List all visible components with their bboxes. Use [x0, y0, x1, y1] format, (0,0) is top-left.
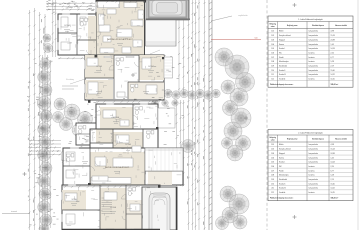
svg-text:185,41 m²: 185,41 m²: [331, 83, 339, 86]
unit1 left wing: [58, 14, 96, 55]
svg-text:15,24: 15,24: [331, 35, 335, 37]
cut wall at bottom frame edge: [62, 228, 160, 230]
svg-text:Konyha+étkező: Konyha+étkező: [279, 148, 291, 151]
svg-text:lam.parketta: lam.parketta: [309, 65, 318, 68]
svg-text:24,98: 24,98: [331, 39, 335, 41]
svg-text:204: 204: [271, 157, 274, 159]
bathroom fixtures: [135, 107, 139, 110]
svg-text:Földszinti alaprajz összesen:: Földszinti alaprajz összesen:: [270, 197, 294, 200]
unit1 lower internal walls: [113, 55, 115, 99]
right chain micro text: [197, 82, 199, 85]
svg-text:111: 111: [271, 74, 274, 76]
svg-text:Gardrób: Gardrób: [279, 191, 285, 194]
door swing arcs: [96, 32, 101, 37]
svg-text:1. lakás Földszinti helyiségek: 1. lakás Földszinti helyiségek: [298, 18, 323, 21]
mid vertical dim chains right of building: [178, 0, 180, 95]
unit1 pergola right: [164, 57, 173, 78]
svg-text:NAPPALI+KONYHA+ÉTKEZŐ: NAPPALI+KONYHA+ÉTKEZŐ: [107, 38, 133, 41]
unit1 wing below: [85, 55, 164, 100]
pool inner top: [152, 1, 182, 16]
svg-text:24,98: 24,98: [331, 153, 335, 155]
svg-text:kerámia: kerámia: [309, 60, 315, 63]
svg-text:14,24: 14,24: [331, 48, 335, 50]
svg-text:lam.parketta: lam.parketta: [309, 38, 318, 41]
svg-text:202: 202: [271, 149, 274, 151]
beige bedroom bottom-left: [62, 190, 86, 210]
dim chain below unit2 hall: [63, 186, 140, 188]
svg-text:107: 107: [271, 57, 274, 59]
svg-text:206: 206: [271, 166, 274, 168]
svg-text:4,98: 4,98: [331, 31, 334, 33]
svg-text:Szoba III.: Szoba III.: [279, 188, 287, 190]
svg-text:Közlekedő: Közlekedő: [279, 179, 287, 181]
svg-text:lam.parketta: lam.parketta: [309, 34, 318, 37]
svg-text:Nappali: Nappali: [279, 153, 285, 155]
right big tree cluster: [215, 48, 233, 66]
unit1 furniture: [98, 1, 120, 8]
leader to fence label: [211, 16, 232, 21]
svg-text:210: 210: [271, 183, 274, 185]
svg-text:Szoba I.: Szoba I.: [279, 162, 286, 164]
unit2 hall internal walls: [89, 148, 91, 185]
svg-text:lam.parketta: lam.parketta: [309, 30, 318, 33]
garden notch annotations: [70, 79, 85, 84]
extra micro text left side: [40, 208, 42, 210]
svg-text:lam.parketta: lam.parketta: [309, 148, 318, 151]
svg-text:203: 203: [271, 153, 274, 155]
left tree column: [40, 59, 51, 70]
tree near building bottom: [85, 175, 97, 187]
svg-text:14,22: 14,22: [331, 74, 335, 76]
svg-text:Mosókonyha: Mosókonyha: [279, 61, 289, 63]
svg-text:SZOBA: SZOBA: [110, 206, 117, 209]
svg-text:Előtér: Előtér: [279, 143, 284, 146]
table 2: apartment 2 room schedule: [268, 130, 353, 201]
svg-text:108: 108: [271, 61, 274, 63]
svg-text:207: 207: [271, 170, 274, 172]
svg-text:Mosókonyha: Mosókonyha: [279, 175, 289, 177]
svg-text:2. lakás Földszinti helyiségek: 2. lakás Földszinti helyiségek: [298, 131, 323, 134]
svg-text:6,77: 6,77: [331, 170, 334, 172]
svg-text:2,19: 2,19: [331, 66, 334, 68]
svg-text:Közlekedő: Közlekedő: [279, 66, 287, 68]
svg-text:5,28: 5,28: [331, 175, 334, 177]
svg-text:Fürdő: Fürdő: [279, 169, 283, 172]
left dimension chain lines: [28, 10, 30, 230]
unit2 top rooms: [96, 104, 158, 129]
svg-text:211: 211: [271, 188, 274, 190]
svg-text:110: 110: [271, 70, 274, 72]
top horizontal dim lines: [46, 2, 95, 4]
svg-text:Gardrób: Gardrób: [279, 78, 285, 81]
svg-text:4,98: 4,98: [331, 144, 334, 146]
svg-text:Szoba III.: Szoba III.: [279, 74, 287, 76]
svg-text:lam.parketta: lam.parketta: [309, 143, 318, 146]
svg-text:15,24: 15,24: [331, 149, 335, 151]
svg-text:101: 101: [271, 31, 274, 33]
svg-text:Szoba II.: Szoba II.: [279, 183, 286, 185]
svg-text:Szoba II.: Szoba II.: [279, 70, 286, 72]
pool terrace dark inner frame: [149, 0, 187, 18]
unit1 living block beige: [96, 0, 145, 57]
svg-text:lam.parketta: lam.parketta: [309, 152, 318, 155]
svg-text:205: 205: [271, 162, 274, 164]
svg-text:kerámia: kerámia: [309, 78, 315, 81]
svg-text:lam.parketta: lam.parketta: [309, 178, 318, 181]
svg-text:Konyha+étkező: Konyha+étkező: [279, 34, 291, 37]
svg-text:102: 102: [271, 35, 274, 37]
bottom pool terrace: [142, 187, 177, 230]
svg-text:kerámia: kerámia: [309, 165, 315, 168]
plus marks: [23, 173, 27, 175]
svg-text:lam.parketta: lam.parketta: [309, 43, 318, 46]
bottom-left leader line: [2, 213, 30, 215]
room label stacks: [64, 29, 70, 31]
cut wall at top frame edge: [96, 0, 146, 2]
svg-text:1,45: 1,45: [331, 44, 334, 46]
svg-text:2,19: 2,19: [331, 179, 334, 181]
svg-text:106: 106: [271, 52, 274, 54]
left chain micro text: [48, 49, 50, 52]
terrace annotation: [150, 50, 160, 54]
micro dimension text around building: [89, 4, 92, 6]
right boundary dimension chains: [188, 0, 190, 230]
svg-text:10 cm hőszig.: 10 cm hőszig.: [66, 79, 75, 81]
horizontal tree row: [148, 89, 156, 97]
svg-text:kerámia: kerámia: [309, 51, 315, 54]
left garden tree cluster: [54, 98, 66, 110]
svg-text:kerámia: kerámia: [309, 174, 315, 177]
svg-text:104: 104: [271, 44, 274, 46]
svg-text:15,00: 15,00: [331, 70, 335, 72]
svg-text:Helyiség: Helyiség: [270, 24, 276, 26]
left horizontal dim group: [29, 140, 61, 142]
bottom pool dark right wall: [176, 187, 178, 230]
dark wall bits: [144, 0, 147, 3]
svg-text:109: 109: [271, 66, 274, 68]
svg-text:6,77: 6,77: [331, 57, 334, 59]
unit2 beige bedroom: [100, 107, 133, 129]
unit2 furniture: [103, 110, 116, 118]
svg-text:14,24: 14,24: [331, 162, 335, 164]
svg-text:Kamra: Kamra: [279, 156, 284, 159]
svg-text:NAPPALI+KONYHA+ÉTKEZŐ: NAPPALI+KONYHA+ÉTKEZŐ: [105, 166, 130, 169]
small tree row y104: [152, 100, 158, 106]
unit2 terrace right of hall: [145, 148, 183, 171]
beige rooms unit1 lower: [85, 55, 114, 78]
svg-text:10,25: 10,25: [331, 192, 335, 194]
unit1 windows: [62, 13, 70, 14]
svg-text:lam.parketta: lam.parketta: [309, 73, 318, 76]
unit2 left wing upper: [76, 123, 96, 145]
right bottom tree cluster: [220, 186, 236, 202]
svg-text:Előtér: Előtér: [279, 30, 284, 33]
svg-text:209: 209: [271, 179, 274, 181]
pool terrace top (gray): [146, 0, 189, 20]
svg-text:Fürdő: Fürdő: [279, 56, 283, 59]
table 1: apartment 1 room schedule: [268, 16, 353, 87]
svg-text:lam.parketta: lam.parketta: [309, 182, 318, 185]
svg-text:kerámia: kerámia: [309, 169, 315, 172]
dim chain below unit1 wing: [58, 57, 84, 59]
svg-text:Helyiség: Helyiség: [270, 137, 276, 139]
svg-text:208: 208: [271, 175, 274, 177]
svg-text:SZOBA: SZOBA: [113, 116, 120, 119]
svg-text:2,20: 2,20: [331, 166, 334, 168]
unit2 bottom rooms: [62, 185, 160, 230]
left wing corridor beige: [88, 16, 96, 55]
svg-text:112: 112: [271, 79, 274, 81]
unit2 mid block: [90, 129, 158, 158]
paper edge faint line: [357, 0, 359, 230]
svg-text:10,25: 10,25: [331, 79, 335, 81]
covered terrace unit1: [146, 20, 177, 46]
stairs: [102, 197, 113, 199]
unit2 terrace marks right: [158, 108, 175, 128]
svg-text:lam.parketta: lam.parketta: [309, 187, 318, 190]
pool terrace dark bottom band: [146, 18, 191, 20]
svg-text:lam.parketta: lam.parketta: [309, 47, 318, 50]
svg-text:201: 201: [271, 144, 274, 146]
dashed separator line: [266, 0, 268, 230]
dim chain above unit2: [96, 101, 160, 103]
svg-text:lam.parketta: lam.parketta: [309, 69, 318, 72]
misc vertical dim segs: [55, 0, 57, 57]
svg-text:14,22: 14,22: [331, 188, 335, 190]
svg-text:5,28: 5,28: [331, 61, 334, 63]
svg-text:szám: szám: [271, 139, 275, 141]
bottom pool shape: [149, 193, 170, 230]
fence double line: [208, 0, 210, 230]
svg-text:kerámia: kerámia: [309, 56, 315, 59]
svg-text:Nappali: Nappali: [279, 39, 285, 41]
svg-text:Földszinti alaprajz összesen:: Földszinti alaprajz összesen:: [270, 83, 294, 86]
left wing internal walls: [76, 14, 78, 55]
svg-text:Kamra: Kamra: [279, 43, 284, 46]
unit2 windows: [61, 152, 62, 160]
svg-text:2,20: 2,20: [331, 52, 334, 54]
svg-text:185,41 m²: 185,41 m²: [331, 197, 339, 200]
svg-text:kerámia: kerámia: [309, 191, 315, 194]
svg-text:lam.parketta: lam.parketta: [309, 161, 318, 164]
svg-text:Helyiség neve: Helyiség neve: [287, 139, 298, 141]
svg-text:105: 105: [271, 48, 274, 50]
red boundary line: [211, 39, 261, 41]
svg-text:103: 103: [271, 39, 274, 41]
svg-text:Szoba I.: Szoba I.: [279, 48, 286, 50]
svg-text:szám: szám: [271, 26, 275, 28]
svg-text:15,00: 15,00: [331, 183, 335, 185]
unit2 hall block: [63, 148, 183, 185]
svg-text:5,00: 5,00: [254, 38, 257, 40]
top small trees: [43, 34, 51, 42]
svg-text:Helyiség neve: Helyiség neve: [287, 25, 298, 27]
svg-text:212: 212: [271, 192, 274, 194]
svg-text:lam.parketta: lam.parketta: [309, 156, 318, 159]
svg-text:1,45: 1,45: [331, 157, 334, 159]
